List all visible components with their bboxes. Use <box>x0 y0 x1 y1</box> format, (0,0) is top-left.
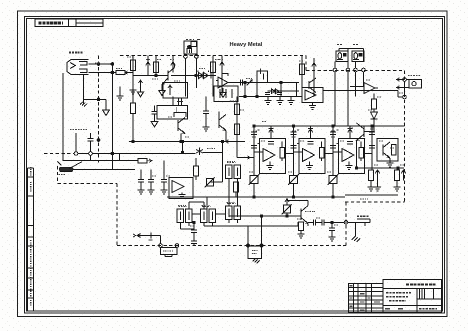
svg-text:Heavy Metal: Heavy Metal <box>230 42 263 48</box>
